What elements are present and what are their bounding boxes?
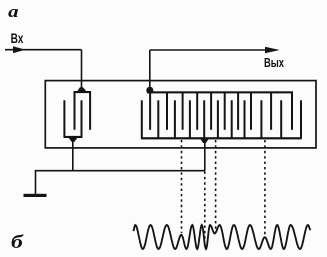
wire ground lead vertical <box>35 170 37 195</box>
IDT1 bottom junction blob <box>68 137 78 142</box>
input arrowhead <box>13 46 26 53</box>
dashed sampling line 3 <box>215 140 217 232</box>
IDT2 bottom finger 4 <box>189 100 191 138</box>
dashed sampling line 2 (below ground wire) <box>204 172 206 242</box>
IDT2 top finger 4 <box>196 93 198 130</box>
IDT1 top bus <box>74 91 91 93</box>
IDT2 top finger 10 <box>291 93 293 130</box>
IDT2 top finger 6 <box>224 93 226 130</box>
dashed sampling line 1 <box>181 140 183 233</box>
substrate rectangle <box>45 81 316 148</box>
IDT2 bottom finger 2 <box>157 100 159 138</box>
IDT2 bottom junction blob <box>200 138 209 143</box>
IDT1 bottom bus <box>64 136 83 138</box>
output arrowhead <box>265 47 280 53</box>
IDT2 bottom finger 5 <box>203 100 205 138</box>
wire input vertical drop <box>81 50 83 90</box>
IDT1 top junction blob <box>76 87 87 92</box>
IDT2 top finger 9 <box>270 93 272 130</box>
IDT2 bottom finger 6 <box>217 100 219 138</box>
dashed sampling line 4 <box>264 140 266 236</box>
IDT1 top finger right <box>89 92 91 130</box>
IDT2 top finger 1 <box>149 93 151 130</box>
IDT1 top finger left <box>74 92 76 130</box>
IDT2 output junction dot <box>146 87 153 94</box>
svg-text:а: а <box>8 2 19 21</box>
svg-text:б: б <box>11 232 25 253</box>
IDT2 bottom finger 11 <box>300 100 302 138</box>
wire IDT2 bottom to ground bus <box>204 139 206 171</box>
IDT2 top finger 7 <box>237 93 239 130</box>
IDT2 bottom bus <box>141 137 302 139</box>
wire input horizontal <box>5 49 82 51</box>
ground symbol <box>24 194 47 197</box>
IDT1 bottom finger left <box>63 100 65 137</box>
IDT2 bottom finger 7 <box>231 100 233 138</box>
IDT2 top finger 3 <box>182 93 184 130</box>
wire ground bus horizontal <box>36 170 206 172</box>
IDT1 bottom finger middle <box>81 100 83 137</box>
svg-text:Вых: Вых <box>264 55 285 70</box>
IDT2 top bus <box>147 91 293 93</box>
IDT2 top finger 5 <box>210 93 212 130</box>
IDT2 bottom finger 8 <box>244 100 246 138</box>
IDT2 top finger 2 <box>166 93 168 130</box>
IDT2 bottom finger 9 <box>260 100 262 138</box>
IDT2 bottom finger 3 <box>174 100 176 138</box>
IDT2 bottom finger 1 <box>141 100 143 138</box>
IDT2 bottom finger 10 <box>280 100 282 138</box>
svg-text:Вх: Вх <box>11 30 24 46</box>
chirp waveform <box>133 225 310 249</box>
IDT2 top finger 8 <box>250 93 252 130</box>
wire output horizontal <box>150 49 266 51</box>
wire IDT1 bottom to ground bus <box>72 138 74 171</box>
wire output vertical <box>149 50 151 90</box>
